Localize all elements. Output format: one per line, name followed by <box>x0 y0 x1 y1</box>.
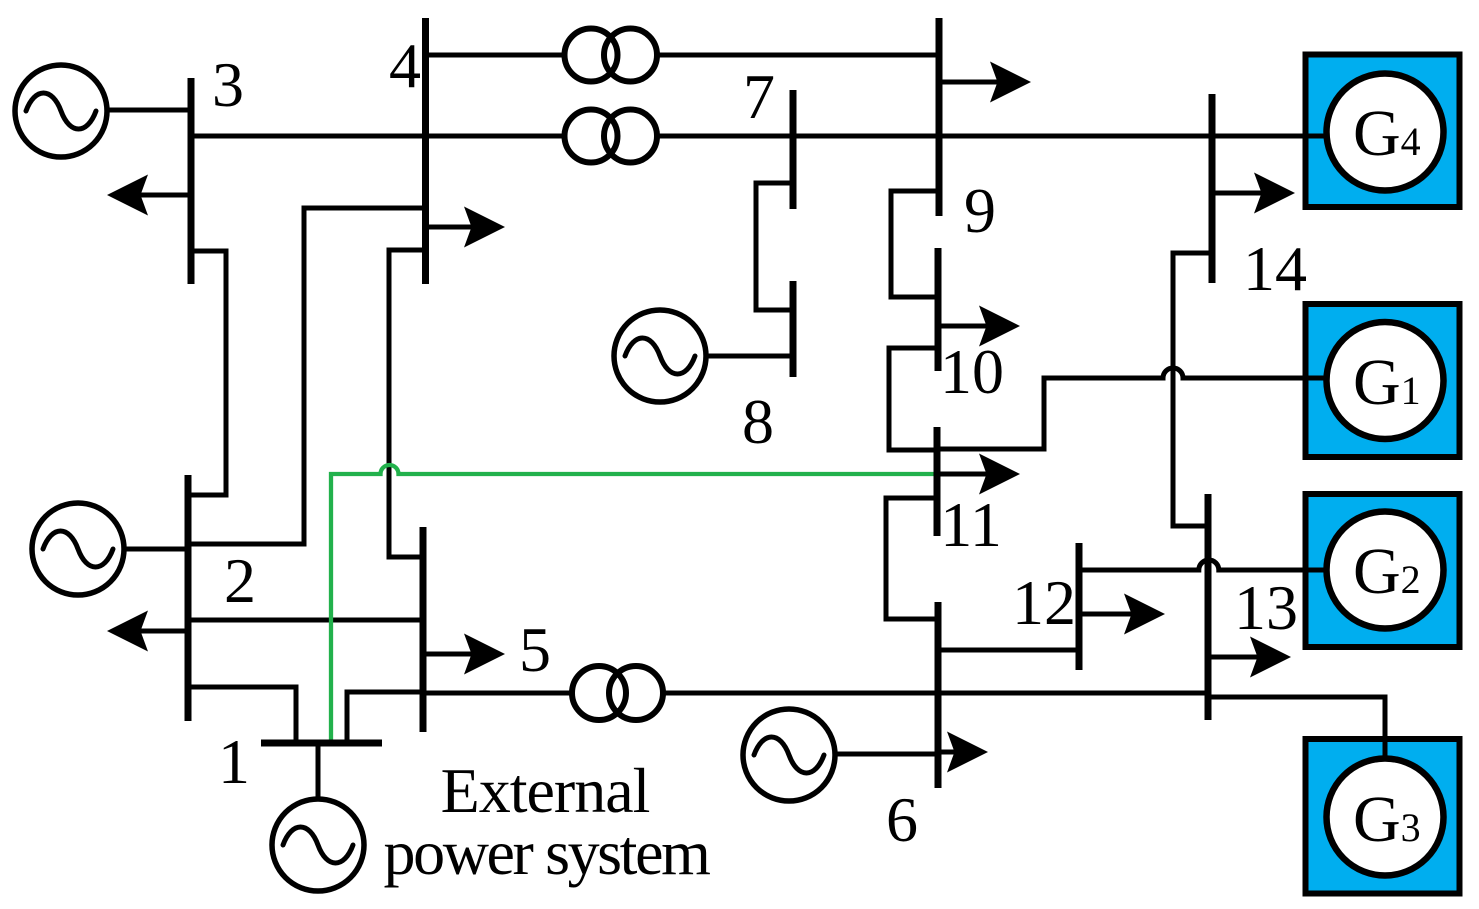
wind farm box G4 <box>1306 55 1460 208</box>
load arrow bus 5 <box>423 634 505 675</box>
generator circle G4 <box>1327 74 1444 191</box>
load arrow bus 10 <box>938 306 1020 347</box>
wire 2-4 <box>188 208 426 544</box>
wire 2-5 <box>188 618 424 623</box>
wire 13-G3 <box>1208 697 1385 756</box>
wire 12-G2 with hop over bus 13 <box>1079 560 1327 570</box>
wire 13-14 <box>1173 253 1212 526</box>
wire 9-10 <box>891 191 939 297</box>
bus 9 <box>936 18 943 216</box>
svg-text:4: 4 <box>389 30 421 101</box>
load arrow bus 11 <box>937 454 1020 495</box>
wire 11-G1 with hop over 13-14 <box>937 368 1327 449</box>
bus 1 <box>261 740 382 747</box>
load arrow bus 14 <box>1212 173 1295 214</box>
svg-text:6: 6 <box>886 784 918 855</box>
wind farm box G1 <box>1306 304 1460 457</box>
bus 3 <box>188 78 195 284</box>
load arrow bus 6 <box>938 732 988 773</box>
wire 1-5 <box>347 692 424 743</box>
svg-text:14: 14 <box>1243 233 1307 304</box>
wire gen2 to bus 2 <box>125 547 188 552</box>
wind farm box G3 <box>1306 739 1460 894</box>
wire 7-8 <box>756 183 793 310</box>
svg-text:7: 7 <box>743 61 775 132</box>
wire gen6 to bus 6 <box>835 752 938 757</box>
svg-text:10: 10 <box>940 336 1004 407</box>
transformer 4-9 <box>565 29 658 82</box>
wire gen1 to bus 1 <box>316 743 321 800</box>
load arrow bus 12 <box>1079 594 1165 635</box>
svg-text:1: 1 <box>218 726 250 797</box>
svg-text:13: 13 <box>1234 572 1298 643</box>
bus 5 <box>420 527 427 732</box>
bus 4 <box>422 18 429 284</box>
generator at bus 3 <box>15 65 107 157</box>
transformer 5-6 <box>572 666 663 720</box>
svg-text:8: 8 <box>742 386 774 457</box>
generator at bus 8 <box>614 310 706 402</box>
wire gen8 to bus 8 <box>707 354 793 359</box>
load arrow bus 3 <box>107 175 191 216</box>
bus 14 <box>1209 94 1216 283</box>
wire 10-11 <box>889 348 938 450</box>
generator circle G2 <box>1327 512 1444 629</box>
wire 6-12 <box>938 648 1079 653</box>
bus 6 <box>935 602 942 788</box>
svg-text:External: External <box>441 755 650 826</box>
transformer 4-7 <box>565 110 658 163</box>
load arrow bus 13 <box>1208 637 1291 678</box>
load arrow bus 2 <box>107 611 188 652</box>
wire 6-11 <box>886 498 938 619</box>
svg-text:power system: power system <box>384 817 711 888</box>
load arrow bus 4 <box>426 207 505 248</box>
bus 10 <box>935 248 942 371</box>
bus 11 <box>934 427 941 536</box>
wire gen3 to bus 3 <box>109 108 191 113</box>
bus 2 <box>185 475 192 721</box>
generator at bus 6 <box>743 709 835 801</box>
wire 5-T3-6-13 <box>424 691 1208 696</box>
wind farm box G2 <box>1306 494 1460 647</box>
wire bus3-bus4-T2-bus7-bus9-bus14-G4 main horizontal <box>191 134 1327 139</box>
svg-text:12: 12 <box>1012 567 1076 638</box>
wire 2-3 <box>188 251 226 495</box>
wire 1-2 <box>188 687 296 743</box>
wire bus4-T1-bus9 transformer line <box>426 53 939 58</box>
svg-text:11: 11 <box>940 489 1002 560</box>
bus 12 <box>1076 543 1083 670</box>
load arrow bus 9 <box>939 62 1031 103</box>
wire 4-5 <box>389 250 426 557</box>
generator circle G1 <box>1327 322 1444 439</box>
generator circle G3 <box>1327 759 1444 876</box>
bus 8 <box>790 281 797 377</box>
wire 1-11 highlighted green with hop over 4-5 <box>331 465 937 743</box>
svg-text:3: 3 <box>212 49 244 120</box>
generator at bus 2 <box>32 503 124 595</box>
generator external at bus 1 <box>272 799 364 891</box>
label external power system <box>384 755 711 888</box>
bus 13 <box>1205 494 1212 720</box>
bus 7 <box>790 90 797 209</box>
svg-text:5: 5 <box>519 614 551 685</box>
svg-text:2: 2 <box>224 545 256 616</box>
svg-text:9: 9 <box>964 175 996 246</box>
